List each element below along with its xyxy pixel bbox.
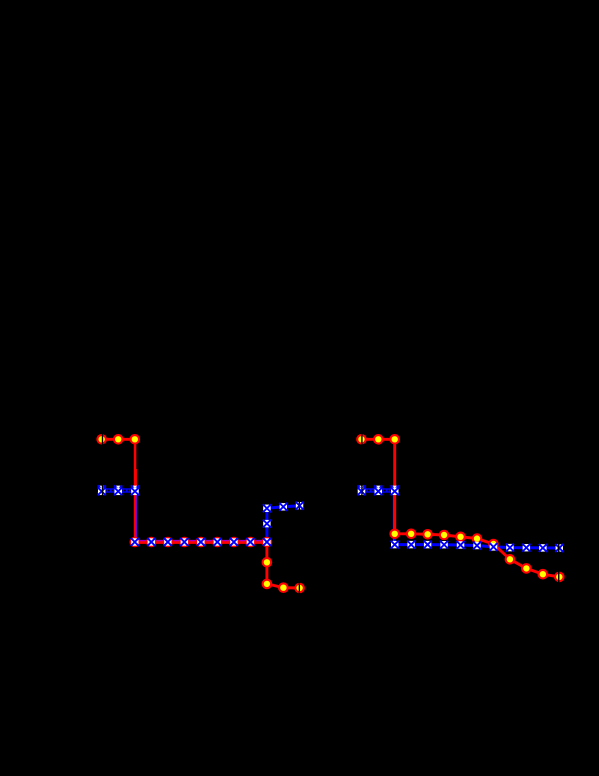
- axis spine left panel left: [102, 425, 104, 600]
- blue X marker R-top-3 (upper strand): [391, 485, 399, 493]
- blue X marker L-long-6: [213, 538, 221, 546]
- red circle marker L-long-6: [213, 538, 222, 547]
- red circle marker R-long-2: [407, 530, 416, 539]
- red circle marker L-long-9: [263, 538, 272, 547]
- red line left panel lower-right segment: [267, 542, 300, 588]
- blue X marker R-long-11: [555, 544, 563, 552]
- red circle marker R-long-1: [390, 530, 399, 539]
- blue X marker L-up-2: [263, 504, 271, 512]
- blue X marker R-long-1: [391, 541, 399, 549]
- red line left panel long segment: [135, 541, 267, 544]
- axis spine left panel right: [298, 425, 300, 600]
- blue X marker R-long-10: [539, 544, 547, 552]
- blue X marker L-up-1: [263, 520, 271, 528]
- blue X marker L-long-5: [197, 538, 205, 546]
- red circle marker R-long-4: [440, 531, 449, 540]
- red circle marker L-down-3: [279, 583, 288, 592]
- blue X marker R-long-6: [473, 541, 481, 549]
- red circle marker R-top-3: [390, 435, 399, 444]
- red circle marker R-long-5: [456, 533, 465, 542]
- magenta overlap sliver on left vertical wire: [135, 495, 137, 540]
- red circle marker L-long-2: [147, 538, 156, 547]
- magenta overlap sliver on left long wire (blue under red): [135, 540, 267, 542]
- blue dashed step-down wire R (hidden behind red vertical): [393, 491, 396, 545]
- blue X marker R-top-1 (upper strand): [357, 485, 365, 493]
- red circle marker L-down-1: [263, 558, 272, 567]
- red circle marker L-top-3: [131, 435, 140, 444]
- red circle marker R-long-11: [555, 573, 564, 582]
- blue X marker R-long-9: [522, 544, 530, 552]
- red circle marker R-top-2: [374, 435, 383, 444]
- blue X marker R-top-2 (lower strand): [374, 487, 382, 495]
- axis spine right panel right: [558, 425, 560, 600]
- magenta overlap sliver on right vertical wire: [393, 496, 395, 541]
- blue X marker L-top-2 (lower strand): [114, 487, 122, 495]
- blue X marker R-long-5: [456, 541, 464, 549]
- blue X marker L-long-9: [263, 538, 271, 546]
- axis spine right panel left: [361, 425, 363, 600]
- red circle marker R-long-9: [522, 564, 531, 573]
- blue dashed step-down wire L (hidden behind red vertical): [134, 491, 137, 543]
- blue X marker L-long-8: [246, 538, 254, 546]
- blue X marker L-long-2: [147, 538, 155, 546]
- red circle marker L-long-4: [180, 538, 189, 547]
- red wire left panel vertical extra strand: [135, 469, 137, 491]
- blue X marker L-top-2 (upper strand): [114, 485, 122, 493]
- blue line R-long (right panel): [395, 545, 560, 548]
- blue X marker L-up-4: [296, 502, 304, 510]
- blue X marker R-long-8: [506, 544, 514, 552]
- red circle marker L-long-1: [131, 538, 140, 547]
- red line left panel top segment: [102, 438, 135, 441]
- red circle marker R-long-6: [473, 534, 482, 543]
- blue X marker L-top-3 (upper strand): [131, 485, 139, 493]
- blue X marker L-long-1: [131, 538, 139, 546]
- blue X marker L-long-3: [164, 538, 172, 546]
- blue X marker L-up-3: [279, 503, 287, 511]
- blue X marker L-top-1 (upper strand): [98, 485, 106, 493]
- blue X marker R-top-3 (lower strand): [391, 487, 399, 495]
- red circle marker R-long-8: [506, 555, 515, 564]
- blue dashed line L-upper (VBM segment, left panel): [102, 488, 135, 492]
- red wire left panel vertical step-down: [134, 438, 137, 542]
- red circle marker R-long-3: [423, 530, 432, 539]
- blue line L-right step-up (left panel): [267, 506, 300, 542]
- red circle marker L-long-3: [164, 538, 173, 547]
- blue dashed line R-upper (VBM segment, right panel): [362, 488, 395, 492]
- red circle marker L-long-7: [230, 538, 239, 547]
- blue X marker L-top-3 (lower strand): [131, 487, 139, 495]
- red circle marker L-top-1: [97, 435, 106, 444]
- red line right panel (CBM trace): [362, 439, 560, 577]
- red circle marker L-down-2: [263, 580, 272, 589]
- blue X marker R-long-3: [424, 541, 432, 549]
- blue X marker R-top-2 (upper strand): [374, 485, 382, 493]
- blue X marker L-top-1 (lower strand): [98, 487, 106, 495]
- red circle marker R-long-7: [489, 540, 498, 549]
- red circle marker R-long-10: [539, 570, 548, 579]
- red circle marker L-down-4: [295, 584, 304, 593]
- blue X marker R-long-2: [407, 541, 415, 549]
- blue X marker L-long-7: [230, 538, 238, 546]
- red circle marker L-long-8: [246, 538, 255, 547]
- blue X marker R-top-1 (lower strand): [357, 487, 365, 495]
- red circle marker L-long-5: [197, 538, 206, 547]
- red circle marker L-top-2: [114, 435, 123, 444]
- blue X marker R-long-4: [440, 541, 448, 549]
- blue X marker L-long-4: [180, 538, 188, 546]
- red circle marker R-top-1: [357, 435, 366, 444]
- blue X marker R-long-7: [489, 543, 497, 551]
